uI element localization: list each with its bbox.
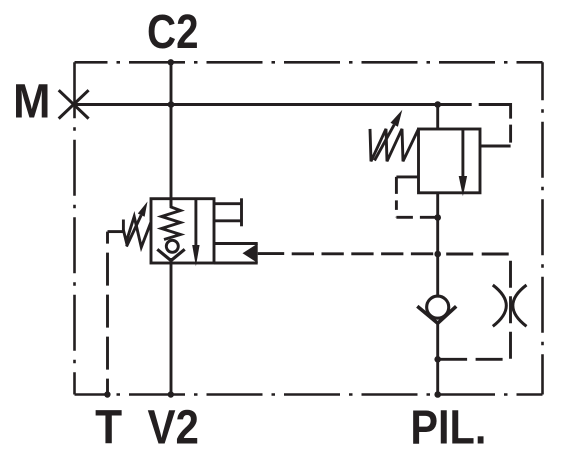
check valve CV1 ball [427,296,449,318]
node at C2 top border [168,59,174,65]
wire: pilot line solid stub from arrowhead [258,252,285,255]
wire: V2 vertical line lower (valve to bottom border) [170,258,173,395]
wire: PIL vertical line (check valve to bottom border) [436,322,439,395]
counterbalance valve V1 body [151,199,214,263]
valve body boundary left edge (dash-dot) [73,62,76,394]
wire: drain line to T (dashed vertical) [106,232,109,395]
counterbalance valve internal spring [162,200,181,240]
wire: M horizontal line [75,103,438,106]
node PIL bottom border [434,391,441,398]
wire: V2 vertical line upper (C2 to counterbalance valve) [170,62,173,206]
relief valve internal arrow [459,129,467,196]
svg-text:C2: C2 [147,6,199,59]
wire: PIL vertical line (relief valve to check valve) [436,193,439,295]
node M/pilot-valve junction [434,101,441,108]
node bypass bottom junction [434,356,441,363]
wire: pilot line from M node to relief valve right side (dashed) [438,105,511,147]
orifice symbol [493,285,527,326]
node pilot/PIL junction [434,251,441,258]
svg-text:T: T [95,402,122,455]
counterbalance valve check seat [157,249,184,260]
svg-text:PIL.: PIL. [410,402,486,455]
pilot arrowhead into counterbalance valve [243,244,258,264]
counterbalance valve pilot port rectangle [214,244,258,264]
counterbalance spring adjustment arrow [127,202,148,247]
valve body boundary bottom edge (dash-dot) [75,393,543,396]
check valve CV1 seat [417,306,456,323]
counterbalance valve pilot piston bracket [214,198,242,226]
svg-text:M: M [13,76,51,129]
svg-text:V2: V2 [147,402,199,455]
wire: relief valve top port [436,105,439,130]
counterbalance valve adjustable spring [123,217,150,248]
node T bottom border [104,391,110,397]
valve body boundary right edge (dash-dot) [541,62,544,394]
relief valve adjustable spring [370,129,419,161]
node V2/M junction [168,101,175,108]
counterbalance valve internal arrow [192,199,199,267]
counterbalance valve check ball [166,240,178,252]
M port X symbol [59,90,89,118]
relief valve U1 body [419,129,481,193]
wire: pilot line dashed to PIL node [284,252,438,255]
relief valve spring adjustment arrow [375,110,403,161]
node V2 bottom border [168,391,174,397]
valve body boundary top edge (dash-dot) [75,61,543,64]
wire: relief valve drain bracket (bottom-left, dashed) [396,177,437,217]
wire: spring chamber drain horizontal [108,230,124,233]
wire: orifice bypass loop (dashed) [438,254,511,359]
node drain/PIL junction [434,214,441,221]
